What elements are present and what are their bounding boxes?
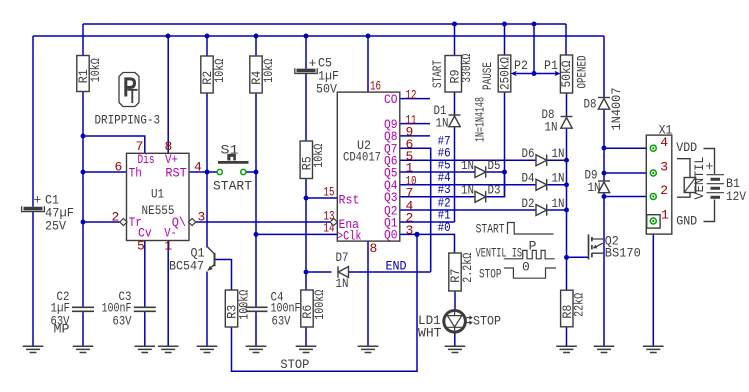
wire D8b top — [603, 36, 605, 97]
node X1 rail junctions — [602, 146, 607, 151]
svg-text:MP: MP — [54, 322, 70, 337]
wire net #0 — [400, 234, 455, 253]
node rail upper junctions — [452, 22, 457, 27]
wire Dis jog — [83, 136, 145, 153]
svg-text:Rst: Rst — [339, 193, 360, 208]
wire Q1 base to R3 — [215, 260, 232, 291]
svg-text:6: 6 — [115, 160, 123, 175]
waveform START — [476, 221, 554, 236]
svg-text:START: START — [213, 179, 252, 194]
wire V- to ground — [167, 241, 169, 347]
svg-text:STOP: STOP — [479, 267, 502, 282]
wire R3 to STOP run up to Q0 — [232, 234, 418, 371]
wire net #6 — [400, 159, 536, 161]
wire Th — [83, 171, 127, 173]
svg-text:Th: Th — [129, 166, 142, 181]
svg-text:1N: 1N — [545, 120, 558, 135]
resistor R6 100kΩ — [300, 290, 327, 327]
wire S1 right — [246, 171, 256, 173]
svg-text:3: 3 — [406, 223, 414, 238]
svg-text:START: START — [476, 221, 505, 236]
ground C4 — [246, 346, 267, 352]
svg-text:330kΩ: 330kΩ — [459, 54, 474, 83]
diode D2 1N — [536, 204, 547, 215]
wire R9 top — [454, 24, 456, 56]
ground R6 — [296, 346, 317, 352]
wire V+ — [167, 36, 169, 153]
transistor Q2 BS170 — [589, 233, 641, 260]
wire C3 to ground — [144, 311, 146, 346]
wire net #2 — [400, 209, 536, 211]
waveform VENTIL IS — [476, 238, 555, 274]
svg-text:U1: U1 — [151, 187, 164, 202]
svg-text:8: 8 — [370, 241, 378, 256]
wire D3 out — [487, 172, 505, 197]
wire C5 bottom to R5 — [305, 74, 307, 142]
svg-text:BS170: BS170 — [605, 245, 641, 260]
svg-text:#0: #0 — [438, 220, 451, 235]
ground LD1 — [445, 346, 466, 352]
svg-text:D4: D4 — [522, 171, 535, 186]
svg-text:7: 7 — [136, 139, 144, 154]
capacitor C1 47uF — [22, 193, 74, 234]
svg-text:50kΩ: 50kΩ — [559, 60, 574, 87]
wire R9 to D1 — [454, 92, 456, 115]
wire U2 pin8 to ground — [367, 241, 369, 346]
wire R1 bottom / timing node column — [82, 92, 84, 307]
wire P2 top — [504, 24, 506, 55]
node Rst junction — [304, 196, 309, 201]
wire D5 out — [487, 171, 505, 173]
wire net #1 — [400, 221, 455, 223]
svg-text:0: 0 — [522, 259, 530, 274]
wire Tr — [83, 221, 120, 223]
svg-text:22kΩ: 22kΩ — [572, 293, 587, 317]
svg-text:P2: P2 — [514, 58, 528, 73]
svg-text:STOP: STOP — [473, 314, 501, 329]
wire C5 top — [305, 36, 307, 69]
wire VDD rail lower — [33, 35, 604, 37]
wire Q9 stub — [400, 123, 430, 125]
wire END right — [349, 271, 431, 273]
wire net #3 — [400, 196, 475, 198]
svg-text:1: 1 — [661, 208, 669, 223]
diode D5 1N — [475, 166, 486, 177]
ground X1 pin1 — [643, 346, 664, 352]
wire D4 out — [548, 184, 567, 186]
svg-text:100kΩ: 100kΩ — [312, 290, 327, 320]
svg-text:CO: CO — [384, 92, 398, 107]
svg-text:1N: 1N — [588, 180, 601, 195]
node D5 junction — [502, 170, 507, 175]
wire net #7 to END bus — [400, 148, 431, 272]
node U1 pin3 bubble — [189, 219, 196, 226]
node Clk junction — [254, 232, 259, 237]
wire R8 to ground — [566, 327, 568, 346]
svg-text:1N: 1N — [461, 183, 474, 198]
svg-text:P1: P1 — [544, 58, 558, 73]
svg-text:1N: 1N — [461, 158, 474, 173]
svg-text:25V: 25V — [45, 219, 66, 234]
node U2 Ena bubble — [330, 219, 337, 226]
ground Q1 emitter — [197, 346, 218, 352]
wire D8b to D9 — [603, 109, 605, 181]
svg-text:STOP: STOP — [280, 357, 309, 372]
wire P1 wiper — [534, 73, 557, 75]
svg-text:1N4007: 1N4007 — [609, 88, 624, 131]
svg-text:CD4017: CD4017 — [343, 150, 381, 165]
logo PT — [119, 73, 139, 107]
waveform STOP — [479, 267, 556, 282]
node S1-R4 junction — [254, 170, 259, 175]
wire C1 to ground — [32, 212, 34, 346]
svg-text:+: + — [309, 56, 317, 71]
node timing column junctions — [81, 134, 86, 139]
node wiper junction — [532, 71, 537, 76]
capacitor C2 1uF MP — [51, 289, 95, 337]
wire net #4 — [400, 184, 536, 186]
svg-text:D5: D5 — [488, 158, 501, 173]
svg-text:2: 2 — [112, 210, 120, 225]
battery B1 12V — [706, 159, 747, 204]
wire C2 to ground — [82, 311, 84, 346]
wire VDD GND bracket — [704, 149, 715, 222]
svg-text:5: 5 — [137, 239, 145, 254]
svg-text:1N=1N4148: 1N=1N4148 — [473, 97, 488, 142]
wire R1 top — [82, 24, 84, 56]
capacitor C5 1uF — [295, 56, 339, 97]
diode D7 1N — [336, 250, 349, 291]
svg-text:3: 3 — [660, 160, 668, 175]
wire D9 to Q2 to ground — [603, 193, 605, 346]
diode D8 1N4007 — [598, 98, 610, 110]
resistor R1 10kΩ — [76, 56, 103, 92]
ground R8 — [556, 346, 577, 352]
svg-text:16: 16 — [370, 78, 381, 93]
svg-text:GND: GND — [676, 214, 697, 229]
svg-text:1: 1 — [165, 239, 173, 254]
svg-text:250kΩ: 250kΩ — [498, 57, 513, 90]
ground C3 — [135, 346, 156, 352]
wire D2 out — [548, 209, 567, 211]
wire wiper feed — [533, 24, 535, 74]
wire C4 to ground — [255, 311, 257, 346]
svg-text:RST: RST — [165, 166, 187, 181]
resistor R8 22kΩ — [560, 290, 587, 327]
wire net #5 — [400, 171, 475, 173]
svg-text:VENTIL: VENTIL — [692, 157, 707, 200]
ground U1 V- — [158, 346, 179, 352]
svg-text:1N: 1N — [336, 276, 349, 291]
node END junction — [304, 270, 309, 275]
wire P1 top — [565, 24, 567, 55]
svg-text:63V: 63V — [113, 313, 132, 328]
svg-text:D8: D8 — [584, 97, 597, 112]
trimmer P2 250k PAUSE — [480, 55, 528, 92]
wire R5 bottom to R6 — [305, 179, 307, 291]
wire X1 pin2 — [604, 196, 650, 198]
resistor R4 10kΩ — [249, 56, 276, 93]
svg-text:2: 2 — [660, 183, 668, 198]
svg-text:D6: D6 — [522, 146, 535, 161]
resistor R9 330k — [445, 54, 474, 92]
diode D9 1N — [598, 181, 610, 193]
svg-text:START: START — [430, 60, 445, 88]
svg-text:50V: 50V — [316, 82, 337, 97]
svg-text:3: 3 — [198, 210, 206, 225]
svg-text:4: 4 — [660, 135, 668, 150]
node diode rail junctions — [564, 158, 569, 163]
svg-text:OPENED: OPENED — [575, 55, 590, 88]
diode D4 1N — [536, 179, 547, 190]
wire P1 to D8 — [566, 93, 568, 117]
svg-text:VDD: VDD — [676, 140, 697, 155]
svg-text:BC547: BC547 — [169, 259, 204, 274]
wire diode rail to R8 — [566, 129, 568, 291]
ground C1 — [23, 346, 44, 352]
wire R4 bottom — [255, 93, 257, 172]
svg-text:Q0: Q0 — [384, 228, 398, 243]
wire X1 pin1 to ground — [652, 224, 654, 346]
capacitor C3 100nF — [102, 289, 156, 328]
svg-text:10kΩ: 10kΩ — [88, 58, 103, 82]
svg-text:D3: D3 — [488, 183, 501, 198]
wire Rst — [306, 197, 337, 199]
wire U2 pin16 — [367, 36, 369, 92]
svg-text:D7: D7 — [336, 250, 349, 265]
wire END left — [306, 271, 332, 273]
connector X1 — [646, 122, 672, 234]
node U1 pin2 bubble — [120, 219, 127, 226]
node rail lower junctions — [166, 34, 171, 39]
resistor R7 2.2kΩ — [448, 253, 475, 291]
wire R6 to ground — [305, 327, 307, 346]
svg-text:1N: 1N — [436, 116, 449, 131]
switch S1 START — [213, 143, 252, 194]
transistor Q1 BC547 — [169, 246, 215, 274]
resistor R2 10kΩ — [200, 56, 227, 93]
diode D1 1N — [449, 115, 461, 127]
wire RST to S1 — [189, 171, 217, 173]
valve VENTIL — [677, 157, 707, 200]
svg-text:2.2kΩ: 2.2kΩ — [460, 253, 475, 283]
diode D6 1N — [536, 155, 547, 166]
svg-text:8: 8 — [165, 139, 173, 154]
wire D1 anode to net #1 — [454, 127, 456, 222]
svg-text:END: END — [386, 259, 407, 274]
svg-text:15: 15 — [324, 185, 335, 200]
svg-text:12V: 12V — [726, 189, 746, 204]
LED LD1 WHT STOP — [418, 310, 501, 340]
ground U2 pin8 — [358, 346, 379, 352]
trimmer P1 50k OPENED — [544, 55, 590, 93]
wire R7 to LED — [454, 291, 456, 310]
svg-text:100kΩ: 100kΩ — [236, 290, 251, 320]
wire Clk — [256, 233, 337, 235]
svg-text:10kΩ: 10kΩ — [261, 59, 276, 83]
wire Clk node to C4 — [255, 234, 257, 307]
wire Q2 gate — [567, 256, 589, 258]
wire P2 bottom to D5 D3 — [504, 92, 506, 197]
wire LED to ground — [454, 333, 456, 346]
IC U1 NE555 — [112, 139, 206, 254]
svg-text:>Clk: >Clk — [337, 229, 362, 244]
wire Q\ to Ena — [196, 221, 331, 223]
wire Cv to C3 — [144, 241, 146, 308]
IC U2 CD4017 — [324, 78, 417, 256]
resistor R3 100kΩ — [225, 290, 252, 327]
svg-text:1N: 1N — [552, 146, 565, 161]
wire P2 wiper — [513, 73, 534, 75]
svg-text:63V: 63V — [272, 313, 291, 328]
svg-text:10kΩ: 10kΩ — [212, 59, 227, 83]
svg-text:NE555: NE555 — [142, 203, 175, 218]
ground C2 — [73, 346, 94, 352]
svg-text:PAUSE: PAUSE — [480, 62, 495, 90]
wire CO stub — [400, 98, 430, 100]
capacitor C4 100nF — [246, 290, 301, 329]
svg-text:4: 4 — [194, 160, 202, 175]
svg-text:WHT: WHT — [418, 326, 442, 341]
diode D3 1N — [475, 191, 486, 202]
svg-text:1N: 1N — [552, 196, 565, 211]
wire Q8 stub — [400, 135, 430, 137]
wire R2 bottom to Q1 collector — [206, 93, 208, 248]
wire X1 pin3 — [604, 172, 650, 174]
node STOP junction — [414, 232, 419, 237]
wire C1 top — [32, 36, 34, 207]
svg-text:D2: D2 — [522, 196, 535, 211]
svg-text:12: 12 — [406, 87, 417, 102]
node RST-S1 junction — [205, 170, 210, 175]
diode D8 1N under P1 — [561, 117, 573, 129]
wire X1 pin4 — [604, 147, 650, 149]
wire R2 top — [206, 36, 208, 56]
svg-text:DRIPPING-3: DRIPPING-3 — [95, 113, 161, 128]
wire S1 to Clk — [255, 172, 257, 234]
resistor R5 10kΩ — [299, 141, 326, 179]
svg-text:10kΩ: 10kΩ — [311, 144, 326, 168]
wire Q1 emitter to ground — [206, 272, 208, 347]
svg-text:+: + — [34, 193, 42, 208]
svg-text:1N: 1N — [552, 171, 565, 186]
wire D6 out — [548, 159, 567, 161]
wire R4 top — [255, 36, 257, 56]
wire VDD rail upper — [83, 23, 566, 25]
ground Q2 source — [594, 346, 615, 352]
